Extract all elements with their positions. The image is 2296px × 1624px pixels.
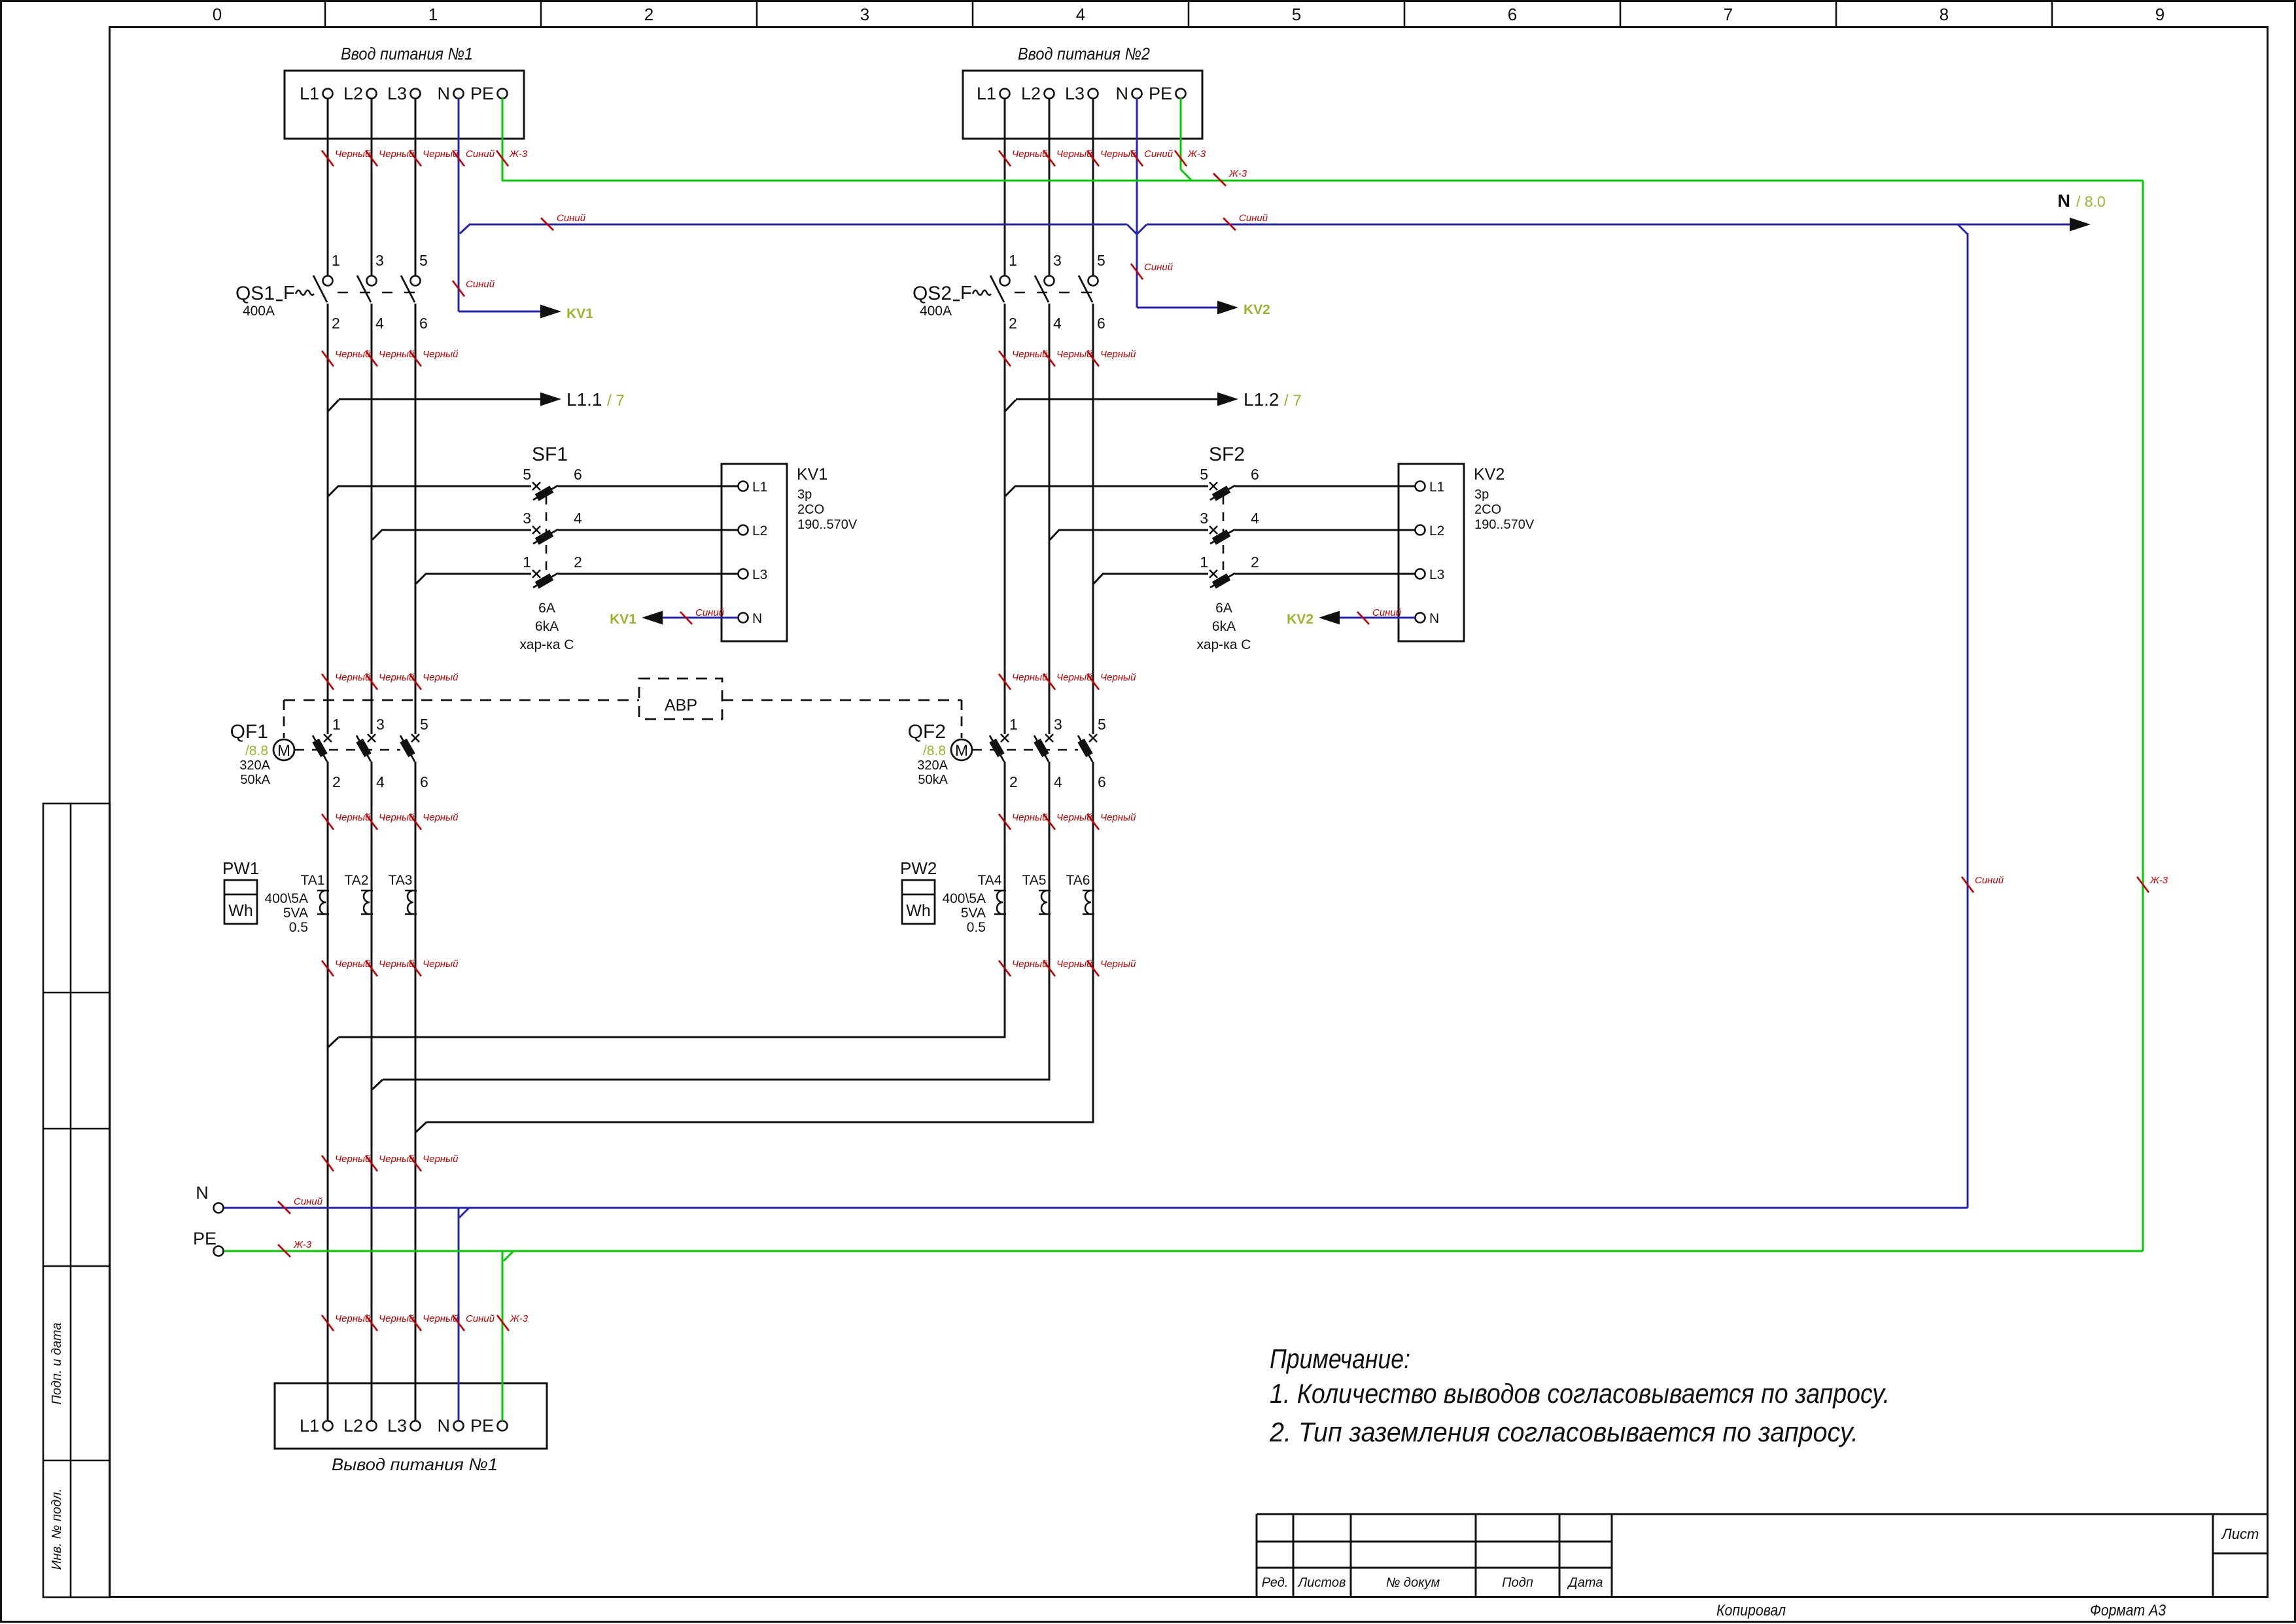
- terminal PE bottom stub: [193, 1229, 224, 1256]
- svg-text:F: F: [960, 283, 972, 304]
- svg-text:N: N: [1116, 84, 1129, 103]
- svg-text:Подп: Подп: [1502, 1576, 1533, 1590]
- wire label Ж-3 on right PE riser: [2137, 875, 2168, 892]
- svg-text:TA1: TA1: [301, 873, 325, 888]
- svg-text:Черный: Черный: [379, 149, 415, 160]
- svg-text:Вывод питания №1: Вывод питания №1: [332, 1455, 498, 1474]
- svg-text:SF1: SF1: [532, 444, 568, 465]
- svg-text:Черный: Черный: [1056, 349, 1092, 360]
- svg-text:хар-ка C: хар-ка C: [520, 637, 574, 652]
- svg-text:Ж-3: Ж-3: [1187, 149, 1206, 160]
- ABP linkage dashed horizontal: [284, 699, 962, 701]
- svg-text:3: 3: [376, 716, 385, 733]
- wire label Синий at KV2: [1357, 607, 1402, 624]
- svg-text:Черный: Черный: [423, 349, 459, 360]
- svg-text:400A: 400A: [243, 304, 275, 319]
- KV1 type labels: [797, 465, 858, 532]
- svg-text:Ж-3: Ж-3: [510, 1313, 529, 1324]
- motor breaker QF1 labels: [230, 721, 271, 787]
- svg-text:Черный: Черный: [423, 1154, 459, 1165]
- svg-text:L2: L2: [1021, 84, 1041, 103]
- QF2 pole pins 3/4: [1034, 716, 1062, 790]
- svg-text:6: 6: [1098, 773, 1106, 790]
- node label L1.2 / 7: [1244, 389, 1302, 410]
- svg-text:M: M: [955, 742, 968, 760]
- wire KV2 N terminal to coil arrow: [1287, 611, 1415, 627]
- svg-text:Инв. № подл.: Инв. № подл.: [50, 1489, 64, 1570]
- wire L2 circuit 1 vertical: [371, 98, 373, 1421]
- svg-text:7: 7: [1724, 5, 1733, 24]
- svg-text:/ 7: / 7: [607, 392, 625, 410]
- wire label Синий on N bus near input 1: [541, 213, 586, 230]
- svg-text:QF2: QF2: [908, 721, 946, 743]
- QS1 pole pins 5/6: [401, 252, 428, 332]
- svg-text:L2: L2: [1429, 523, 1444, 538]
- svg-text:M: M: [277, 742, 290, 760]
- svg-text:N: N: [2058, 191, 2071, 211]
- svg-text:4: 4: [1251, 510, 1259, 527]
- svg-text:Черный: Черный: [335, 812, 371, 823]
- svg-text:SF2: SF2: [1209, 444, 1245, 465]
- svg-text:2: 2: [1251, 554, 1259, 571]
- svg-text:6: 6: [420, 773, 428, 790]
- wire label Синий on N wire input 1: [453, 279, 495, 296]
- svg-text:Черный: Черный: [335, 959, 371, 970]
- svg-text:L3: L3: [387, 84, 407, 103]
- svg-text:0: 0: [213, 5, 222, 24]
- svg-text:2: 2: [1009, 773, 1018, 790]
- wire L1 circuit 1 vertical: [327, 98, 329, 1421]
- wire label Синий on N wire input 2: [1131, 262, 1174, 279]
- svg-text:L3: L3: [752, 567, 767, 582]
- KV2 terminals L1 L2 L3 N: [1416, 480, 1445, 626]
- svg-text:Ж-3: Ж-3: [509, 149, 528, 160]
- svg-text:Синий: Синий: [695, 607, 725, 618]
- wire PE drop to output terminal: [502, 1251, 504, 1421]
- svg-text:6: 6: [574, 466, 582, 483]
- svg-text:400\5A: 400\5A: [264, 891, 308, 906]
- terminal N bottom stub: [196, 1183, 223, 1213]
- svg-text:1: 1: [1009, 252, 1017, 269]
- svg-text:PE: PE: [470, 1416, 494, 1436]
- svg-text:9: 9: [2155, 5, 2165, 24]
- svg-text:Черный: Черный: [335, 349, 371, 360]
- wire colour labels row below CTs: [322, 959, 371, 976]
- svg-text:Черный: Черный: [1056, 672, 1092, 683]
- svg-text:L2: L2: [752, 523, 767, 538]
- svg-text:L3: L3: [1429, 567, 1444, 582]
- svg-text:5: 5: [1097, 252, 1105, 269]
- wire PE bus horizontal top: [502, 180, 2143, 182]
- svg-text:Черный: Черный: [1100, 959, 1136, 970]
- wire PE riser right side: [2142, 181, 2144, 1251]
- svg-text:АВР: АВР: [665, 696, 697, 715]
- svg-text:Черный: Черный: [1056, 959, 1092, 970]
- svg-text:Черный: Черный: [1012, 349, 1048, 360]
- svg-text:5VA: 5VA: [283, 906, 308, 921]
- QF1 motor drive M: [273, 739, 294, 760]
- svg-text:5: 5: [1098, 716, 1106, 733]
- svg-text:Черный: Черный: [1100, 812, 1136, 823]
- QS1 pole pins 1/2: [313, 252, 340, 332]
- wire colour labels row at inputs: [322, 149, 371, 166]
- svg-text:QF1: QF1: [230, 721, 268, 743]
- wire N input 1 vertical: [458, 98, 460, 311]
- svg-text:Черный: Черный: [335, 1154, 371, 1165]
- svg-text:Черный: Черный: [1056, 812, 1092, 823]
- svg-text:2CO: 2CO: [1474, 503, 1501, 517]
- svg-text:KV1: KV1: [797, 465, 827, 484]
- wire L3 circuit 1 vertical: [415, 98, 417, 1421]
- svg-text:1: 1: [332, 252, 340, 269]
- svg-text:Подп. и дата: Подп. и дата: [50, 1322, 64, 1404]
- wire N input 2 vertical: [1136, 98, 1138, 308]
- svg-text:4: 4: [375, 315, 384, 332]
- disconnector QS1: [235, 283, 415, 319]
- current transformer TA4: [978, 873, 1006, 914]
- svg-text:Черный: Черный: [1100, 672, 1136, 683]
- wire label Синий on N bus near input 2: [1223, 213, 1268, 230]
- svg-text:Черный: Черный: [423, 672, 459, 683]
- QS2 pole pins 3/4: [1035, 252, 1062, 332]
- notes Примечание: [1269, 1343, 1890, 1447]
- svg-text:Синий: Синий: [1975, 875, 2004, 886]
- svg-text:N: N: [1429, 611, 1439, 626]
- svg-text:Черный: Черный: [379, 349, 415, 360]
- svg-text:5: 5: [1200, 466, 1208, 483]
- terminal block Ввод питания №2: [963, 71, 1202, 139]
- svg-text:QS1: QS1: [235, 283, 275, 304]
- svg-text:N: N: [438, 84, 451, 103]
- svg-text:Синий: Синий: [466, 1313, 495, 1324]
- svg-text:Черный: Черный: [1056, 149, 1092, 160]
- svg-text:L1: L1: [300, 1416, 319, 1436]
- svg-text:Листов: Листов: [1297, 1576, 1346, 1590]
- QS2 pole pins 5/6: [1079, 252, 1105, 332]
- QF1 pole pins 5/6: [400, 716, 428, 790]
- wire label Ж-3 on bottom PE bus: [278, 1239, 312, 1257]
- SF1 pole pins 3/4: [523, 510, 582, 545]
- svg-text:Черный: Черный: [379, 959, 415, 970]
- SF2 value labels 6A 6kA хар-ка C: [1197, 601, 1251, 652]
- QF1 ABP dashed drop: [283, 700, 285, 738]
- svg-text:Ред.: Ред.: [1262, 1576, 1289, 1590]
- svg-text:Лист: Лист: [2221, 1526, 2259, 1542]
- svg-text:Черный: Черный: [379, 812, 415, 823]
- current transformer TA5: [1022, 873, 1051, 914]
- svg-text:N: N: [752, 611, 762, 626]
- QS2 pole pins 1/2: [990, 252, 1017, 332]
- svg-text:1: 1: [332, 716, 341, 733]
- terminal block Вывод питания №1: [275, 1383, 547, 1449]
- svg-text:1: 1: [428, 5, 438, 24]
- svg-text:L3: L3: [387, 1416, 407, 1436]
- svg-text:0.5: 0.5: [967, 920, 986, 935]
- terminals L1 L2 L3 N PE of input 2: [977, 84, 1186, 103]
- wire colour labels row above output block: [322, 1313, 371, 1331]
- energy meter PW1: [222, 858, 259, 924]
- svg-text:6A: 6A: [538, 601, 555, 616]
- SF2 linkage dashed: [1223, 496, 1225, 578]
- svg-text:Синий: Синий: [466, 279, 495, 290]
- svg-text:Черный: Черный: [423, 812, 459, 823]
- svg-text:Черный: Черный: [379, 1154, 415, 1165]
- svg-text:хар-ка C: хар-ка C: [1197, 637, 1251, 652]
- QF2 linkage dashed: [973, 749, 1078, 751]
- current transformer TA6: [1066, 873, 1094, 914]
- svg-text:2: 2: [332, 773, 341, 790]
- wire label Синий at KV1: [680, 607, 725, 624]
- wire KV2 coil feed from N: [1137, 301, 1238, 315]
- svg-text:3: 3: [1200, 510, 1208, 527]
- node N / 8.0 arrow: [2058, 191, 2106, 232]
- svg-text:Ж-3: Ж-3: [293, 1239, 312, 1250]
- ABP control box (dashed): [639, 679, 722, 719]
- title block table: [1257, 1514, 2268, 1597]
- node label L1.1 / 7: [566, 389, 625, 410]
- svg-text:320A: 320A: [239, 758, 270, 773]
- svg-text:Синий: Синий: [1239, 213, 1268, 224]
- svg-text:L1: L1: [1429, 480, 1444, 495]
- svg-text:KV1: KV1: [566, 306, 593, 321]
- terminals L1 L2 L3 N PE of input 1: [300, 84, 508, 103]
- wire colour labels row below QF: [322, 812, 371, 830]
- QF2 pole pins 5/6: [1077, 716, 1105, 790]
- SF2 pole pins 1/2: [1200, 554, 1259, 589]
- svg-text:4: 4: [574, 510, 582, 527]
- wire N riser right side: [1958, 224, 1968, 1208]
- wire label Синий on bottom N bus: [278, 1196, 323, 1214]
- svg-text:Ввод питания №2: Ввод питания №2: [1018, 44, 1150, 63]
- SF1 pole pins 5/6: [523, 466, 582, 501]
- svg-text:6: 6: [1251, 466, 1259, 483]
- wire PE bus horizontal bottom: [223, 1251, 2143, 1261]
- QF2 motor drive M: [951, 739, 972, 760]
- svg-text:6kA: 6kA: [1212, 619, 1236, 634]
- svg-text:1. Количество выводов согласов: 1. Количество выводов согласовывается по…: [1270, 1378, 1890, 1409]
- svg-text:Черный: Черный: [1012, 149, 1048, 160]
- SF2 pole pins 5/6: [1200, 466, 1259, 501]
- svg-text:50kA: 50kA: [918, 773, 948, 787]
- svg-text:L2: L2: [343, 84, 363, 103]
- svg-text:Черный: Черный: [1100, 149, 1136, 160]
- wire PE input 2 vertical: [1181, 98, 1191, 180]
- svg-text:4: 4: [1076, 5, 1085, 24]
- svg-text:/ 8.0: / 8.0: [2076, 193, 2106, 210]
- svg-text:TA3: TA3: [389, 873, 413, 888]
- svg-text:Черный: Черный: [335, 672, 371, 683]
- svg-text:Синий: Синий: [1144, 149, 1174, 160]
- svg-text:5: 5: [419, 252, 428, 269]
- svg-text:TA2: TA2: [345, 873, 369, 888]
- svg-text:QS2: QS2: [913, 283, 952, 304]
- svg-text:Ввод питания №1: Ввод питания №1: [341, 44, 473, 63]
- svg-text:Черный: Черный: [335, 149, 371, 160]
- svg-text:/8.8: /8.8: [923, 743, 946, 758]
- SF2 pole pins 3/4: [1200, 510, 1259, 545]
- svg-text:320A: 320A: [917, 758, 948, 773]
- KV1 terminals L1 L2 L3 N: [739, 480, 768, 626]
- svg-text:3: 3: [1053, 252, 1062, 269]
- tie wires QF1 output to QF2 output: [328, 1037, 1093, 1132]
- svg-text:3: 3: [523, 510, 531, 527]
- svg-text:Черный: Черный: [1012, 959, 1048, 970]
- svg-text:/ 7: / 7: [1284, 392, 1302, 410]
- QF1 linkage dashed: [295, 749, 400, 751]
- wire N bus horizontal top: [469, 224, 2070, 234]
- title block column labels: [1262, 1576, 1603, 1590]
- svg-text:Синий: Синий: [557, 213, 586, 224]
- disconnector QS2: [913, 283, 1092, 319]
- svg-text:5: 5: [523, 466, 531, 483]
- svg-text:L2: L2: [343, 1416, 363, 1436]
- svg-text:2: 2: [332, 315, 340, 332]
- wire KV1 coil feed from N: [459, 305, 561, 319]
- current transformer TA3: [389, 873, 417, 914]
- wire L1 circuit 2 vertical: [1004, 98, 1006, 1038]
- svg-text:4: 4: [376, 773, 385, 790]
- svg-text:N: N: [438, 1416, 451, 1436]
- svg-text:5: 5: [1292, 5, 1301, 24]
- svg-text:L1: L1: [752, 480, 767, 495]
- svg-text:6A: 6A: [1215, 601, 1232, 616]
- svg-text:L1: L1: [977, 84, 996, 103]
- CT value labels near TA4: [942, 891, 986, 935]
- svg-text:Wh: Wh: [906, 902, 931, 920]
- svg-text:/8.8: /8.8: [245, 743, 268, 758]
- svg-text:PW2: PW2: [900, 858, 937, 878]
- energy meter PW2: [900, 858, 937, 924]
- svg-text:Ж-3: Ж-3: [2149, 875, 2168, 886]
- svg-text:Черный: Черный: [1012, 672, 1048, 683]
- svg-text:KV1: KV1: [610, 612, 636, 627]
- wire taps from circuit 2 phases to SF2: [1005, 486, 1415, 584]
- top ruler ticks: [325, 2, 2052, 27]
- svg-text:KV2: KV2: [1287, 612, 1313, 627]
- svg-text:400A: 400A: [920, 304, 952, 319]
- motor breaker QF2 labels: [908, 721, 948, 787]
- svg-text:4: 4: [1053, 315, 1062, 332]
- svg-text:N: N: [196, 1183, 209, 1203]
- svg-text:1: 1: [1009, 716, 1018, 733]
- svg-text:Черный: Черный: [1100, 349, 1136, 360]
- svg-text:6: 6: [419, 315, 428, 332]
- svg-text:PE: PE: [193, 1229, 217, 1248]
- svg-text:Формат А3: Формат А3: [2090, 1602, 2166, 1619]
- left margin strip: [43, 803, 110, 1597]
- svg-text:1: 1: [523, 554, 531, 571]
- svg-text:TA6: TA6: [1066, 873, 1090, 888]
- QF2 pole pins 1/2: [989, 716, 1017, 790]
- wire N drop to output terminal: [458, 1208, 460, 1421]
- wire label Синий on right N riser: [1962, 875, 2004, 892]
- svg-text:Примечание:: Примечание:: [1270, 1343, 1410, 1374]
- wire colour labels row above QF: [322, 672, 371, 690]
- svg-text:2: 2: [644, 5, 653, 24]
- svg-text:6kA: 6kA: [535, 619, 559, 634]
- junction N input 1 to N bus: [460, 224, 470, 234]
- svg-text:8: 8: [1939, 5, 1949, 24]
- svg-text:Черный: Черный: [1012, 812, 1048, 823]
- QF1 pole pins 1/2: [312, 716, 340, 790]
- svg-text:3: 3: [1054, 716, 1062, 733]
- svg-text:PE: PE: [470, 84, 494, 103]
- svg-text:3p: 3p: [1474, 487, 1489, 502]
- svg-text:1: 1: [1200, 554, 1208, 571]
- svg-text:400\5A: 400\5A: [942, 891, 986, 906]
- svg-text:5VA: 5VA: [961, 906, 986, 921]
- svg-text:Черный: Черный: [379, 672, 415, 683]
- QF2 ABP dashed drop: [961, 700, 963, 738]
- wire label Ж-3 on PE bus near input 2: [1213, 168, 1247, 186]
- svg-text:Синий: Синий: [466, 149, 495, 160]
- wire L3 circuit 2 vertical: [1092, 98, 1094, 1123]
- svg-text:6: 6: [1097, 315, 1105, 332]
- current transformer TA1: [301, 873, 329, 914]
- svg-text:6: 6: [1508, 5, 1517, 24]
- terminal block Ввод питания №1: [285, 71, 524, 139]
- wire N bus horizontal bottom: [223, 1208, 1968, 1218]
- svg-text:Черный: Черный: [335, 1313, 371, 1324]
- top ruler numbers: [213, 5, 2165, 24]
- svg-text:Черный: Черный: [423, 959, 459, 970]
- svg-text:Дата: Дата: [1567, 1576, 1603, 1590]
- node L1.2 arrow to sheet 7: [1005, 393, 1238, 412]
- svg-text:190..570V: 190..570V: [1474, 518, 1535, 532]
- node L1.1 arrow to sheet 7: [328, 393, 561, 412]
- svg-text:PW1: PW1: [222, 858, 259, 878]
- SF1 value labels 6A 6kA хар-ка C: [520, 601, 574, 652]
- svg-text:TA4: TA4: [978, 873, 1002, 888]
- svg-text:L1.2: L1.2: [1244, 389, 1279, 410]
- svg-text:2: 2: [1009, 315, 1017, 332]
- wire KV1 N terminal to coil arrow: [610, 611, 738, 627]
- voltage relay KV1 box: [722, 464, 787, 641]
- svg-text:L1.1: L1.1: [566, 389, 602, 410]
- svg-text:PE: PE: [1149, 84, 1172, 103]
- svg-text:0.5: 0.5: [289, 920, 308, 935]
- terminals L1 L2 L3 N PE of output 1: [300, 1416, 508, 1436]
- KV2 type labels: [1474, 465, 1535, 532]
- wire taps from circuit 1 phases to SF1: [328, 486, 738, 584]
- svg-text:KV2: KV2: [1474, 465, 1505, 484]
- svg-text:Черный: Черный: [379, 1313, 415, 1324]
- QS1 pole pins 3/4: [357, 252, 384, 332]
- current transformer TA2: [345, 873, 373, 914]
- svg-text:2: 2: [574, 554, 582, 571]
- svg-text:2CO: 2CO: [797, 503, 824, 517]
- svg-text:3p: 3p: [797, 487, 812, 502]
- svg-text:190..570V: 190..570V: [797, 518, 858, 532]
- svg-text:Синий: Синий: [294, 1196, 323, 1207]
- svg-text:L3: L3: [1065, 84, 1085, 103]
- svg-text:Синий: Синий: [1372, 607, 1402, 618]
- SF1 linkage dashed: [546, 496, 548, 578]
- wire L2 circuit 2 vertical: [1049, 98, 1051, 1081]
- svg-text:Wh: Wh: [228, 902, 253, 920]
- svg-text:3: 3: [860, 5, 869, 24]
- QF1 pole pins 3/4: [356, 716, 385, 790]
- svg-text:L1: L1: [300, 84, 319, 103]
- svg-text:F: F: [283, 283, 295, 304]
- svg-text:№ докум: № докум: [1386, 1576, 1440, 1590]
- svg-text:50kA: 50kA: [240, 773, 270, 787]
- wire PE input 1 vertical: [502, 98, 504, 181]
- svg-text:Копировал: Копировал: [1716, 1602, 1786, 1619]
- svg-text:4: 4: [1054, 773, 1062, 790]
- CT value labels near TA1: [264, 891, 308, 935]
- SF1 pole pins 1/2: [523, 554, 582, 589]
